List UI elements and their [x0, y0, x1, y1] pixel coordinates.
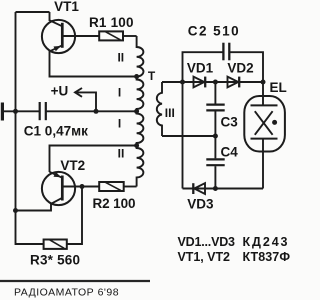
node winding tap 1 [134, 74, 139, 79]
svg-text:I: I [118, 117, 121, 131]
capacitor C4 [206, 136, 224, 189]
svg-text:C4: C4 [221, 144, 239, 159]
capacitor C3 [206, 82, 224, 136]
transformer T primary winding I lower [137, 111, 144, 145]
diode VD3 [193, 183, 205, 194]
svg-text:VD1...VD3: VD1...VD3 [178, 235, 236, 249]
node VT2 base / R3 [80, 184, 85, 189]
svg-text:I: I [118, 86, 121, 100]
wire VT2 collector [16, 204, 52, 211]
wire R2 to transformer [124, 186, 137, 188]
capacitor C2 [183, 43, 264, 82]
node VT2 collector / left rail [13, 208, 18, 213]
svg-text:КД243: КД243 [243, 235, 288, 249]
wire VT1 base [64, 35, 100, 37]
input terminal [1, 103, 4, 121]
wire R1 to transformer [123, 35, 137, 37]
svg-text:C3: C3 [221, 114, 239, 129]
svg-text:II: II [118, 147, 125, 161]
diode VD2 [228, 77, 240, 88]
+U supply arrow [75, 88, 96, 111]
wire VT1 collector [49, 12, 51, 21]
transformer T secondary winding III [157, 82, 162, 136]
resistor R1 [99, 31, 123, 40]
wire C1 to transformer centre tap [46, 110, 137, 112]
node +U [94, 109, 99, 114]
footer rule [0, 280, 150, 282]
node winding tap 2 [134, 143, 139, 148]
node secondary top / C2 [180, 80, 185, 85]
wire terminal to C1 [4, 110, 40, 112]
lamp EL [244, 82, 285, 189]
wire secondary top rail [162, 81, 263, 83]
wire left rail [16, 12, 44, 244]
svg-text:VT1, VT2: VT1, VT2 [178, 250, 231, 264]
transformer T primary winding I upper [137, 77, 144, 112]
svg-text:C1 0,47мк: C1 0,47мк [24, 123, 88, 138]
transistor VT2 [42, 172, 75, 205]
svg-text:II: II [117, 51, 124, 65]
transistor VT1 [42, 20, 75, 53]
wire bypass vertical [182, 82, 184, 189]
node C1 / left rail [13, 109, 18, 114]
svg-text:VT1: VT1 [54, 0, 79, 14]
diode VD1 [194, 77, 206, 88]
wire top [16, 11, 50, 13]
capacitor C1 [40, 102, 46, 120]
svg-text:VT2: VT2 [60, 158, 85, 173]
wire VT2 emitter [50, 146, 137, 173]
svg-text:C2 510: C2 510 [188, 24, 239, 39]
svg-text:III: III [165, 106, 175, 120]
svg-text:КТ837Ф: КТ837Ф [243, 250, 291, 264]
wire VT1 emitter [50, 51, 137, 77]
transformer T primary winding II bottom [137, 146, 144, 187]
svg-text:EL: EL [270, 80, 287, 95]
svg-text:T: T [148, 69, 156, 83]
node winding centre tap [134, 109, 139, 114]
node lamp top / C2 [261, 80, 266, 85]
wire secondary bottom [162, 135, 215, 137]
node C3-C4 / secondary bottom [213, 134, 218, 139]
svg-text:VD1: VD1 [187, 60, 214, 75]
resistor R3 [44, 240, 67, 249]
wire bottom rail [183, 188, 264, 190]
svg-text:+U: +U [51, 83, 69, 98]
node C4 / bottom rail [213, 186, 218, 191]
wire VT2 base [64, 186, 100, 188]
svg-text:R2 100: R2 100 [93, 196, 136, 211]
svg-text:VD3: VD3 [187, 197, 214, 212]
node VD1-VD2 / C3 [213, 80, 218, 85]
svg-text:R1 100: R1 100 [89, 15, 134, 30]
svg-text:R3* 560: R3* 560 [30, 253, 80, 268]
svg-text:VD2: VD2 [227, 60, 253, 75]
transformer T primary winding II top [137, 36, 144, 77]
resistor R2 [99, 182, 124, 191]
svg-text:РАДІОАМАТОР 6'98: РАДІОАМАТОР 6'98 [14, 287, 119, 299]
wire base node to R3 [67, 187, 82, 245]
